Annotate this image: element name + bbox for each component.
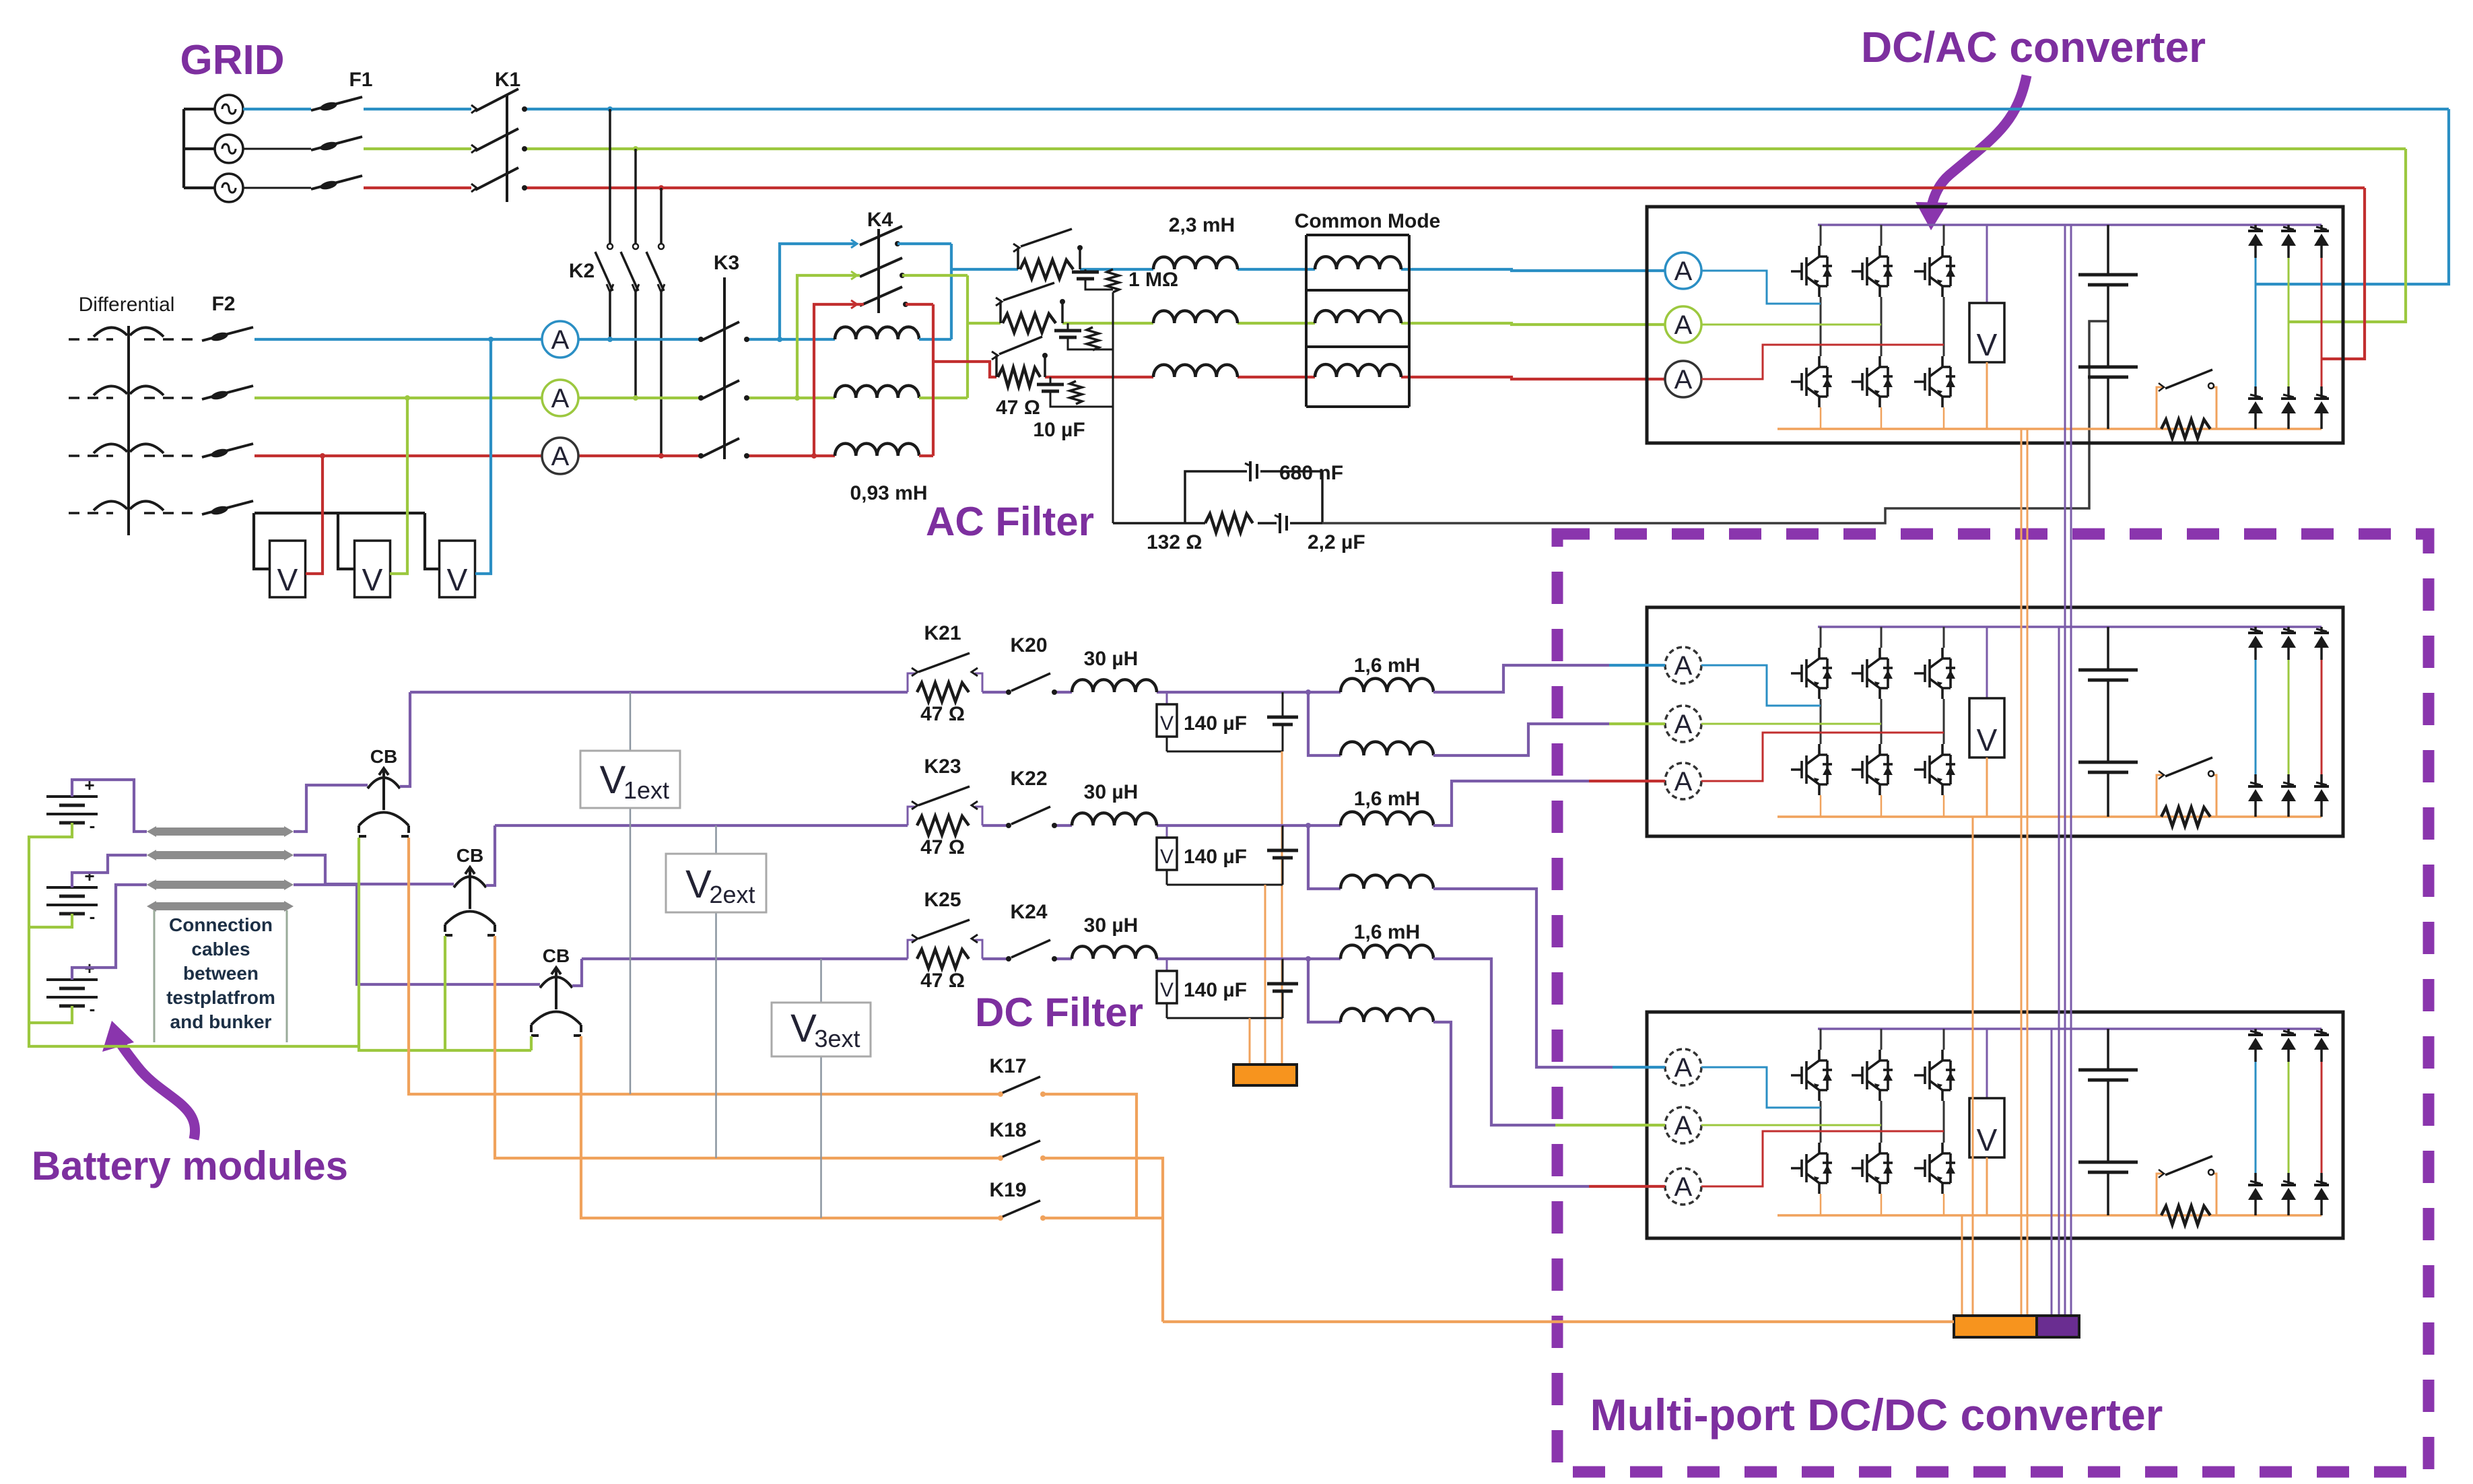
DC/AC converter IGBT leg 1 — [1820, 225, 1822, 246]
svg-text:V: V — [1160, 712, 1174, 735]
svg-text:1ext: 1ext — [623, 776, 669, 804]
inductor 0,93 mH L1 — [835, 327, 919, 339]
DC filter ground bar — [1233, 1065, 1297, 1085]
inductor 1,6 mH row 1 (return) — [1308, 692, 1341, 755]
wire: K18 out — [1043, 1158, 1163, 1322]
svg-text:30 µH: 30 µH — [1084, 781, 1139, 803]
DC/DC unit2 ammeter A2 — [1665, 1107, 1701, 1143]
svg-text:AC Filter: AC Filter — [926, 499, 1094, 544]
wire: phase L3 (red) top bus — [243, 187, 311, 189]
wire: K17 out — [1043, 1094, 1137, 1217]
DC/AC converter enclosure — [1647, 207, 2343, 443]
svg-text:140 µF: 140 µF — [1184, 979, 1247, 1001]
arrow to DC/AC converter — [1931, 75, 2027, 209]
svg-text:1,6 mH: 1,6 mH — [1354, 921, 1420, 943]
inductor 0,93 mH L3 — [835, 444, 919, 456]
DC/DC unit2 precharge switch — [2157, 1174, 2163, 1215]
DC/DC unit1 ammeter A2 — [1665, 706, 1701, 742]
wire: row2 top coil to unit1 A3 (red) — [1433, 781, 1589, 825]
inductor 2,3 mH L3 — [1153, 365, 1238, 377]
svg-text:K25: K25 — [924, 889, 961, 911]
DC/DC unit2 diode leg 1 — [2254, 1029, 2257, 1035]
DC/DC unit1 enclosure — [1647, 607, 2343, 836]
wire: CB2 orange to K18 — [495, 936, 1001, 1158]
svg-text:A: A — [1674, 1111, 1693, 1141]
orange drop row 1 to DC-filter bar — [1281, 751, 1283, 1065]
wire: row3 top coil to unit2 A2 (green) — [1433, 959, 1555, 1125]
DC/DC unit1 IGBT leg 2 — [1881, 627, 1883, 648]
wire: red filter row — [933, 362, 996, 377]
DC/DC unit2 diode leg 2 — [2287, 1029, 2290, 1035]
svg-text:K1: K1 — [495, 69, 520, 91]
svg-text:A: A — [1674, 767, 1693, 797]
wire: CB2 to DC row2 bus — [486, 825, 495, 885]
svg-text:K2: K2 — [569, 260, 595, 282]
svg-text:Common Mode: Common Mode — [1295, 210, 1441, 232]
DC/DC unit1 diode leg 3 — [2320, 627, 2323, 633]
DC/AC converter diode leg 2 — [2287, 225, 2290, 231]
svg-text:K24: K24 — [1010, 901, 1047, 923]
wire: star to DC link midpoint — [1322, 321, 2108, 523]
orange drop row 3 to DC-filter bar — [1249, 1018, 1251, 1065]
inductor 30 uH row 2 — [1072, 813, 1157, 825]
wire: row L3 red after F2 — [255, 454, 542, 457]
svg-text:between: between — [183, 963, 259, 984]
DC/DC unit1 diode leg 2 — [2287, 627, 2290, 633]
svg-text:47 Ω: 47 Ω — [920, 970, 965, 992]
voltmeter V row 1 — [1166, 692, 1168, 704]
svg-text:cables: cables — [191, 939, 250, 959]
wire: star point — [1112, 292, 1114, 523]
DC/DC unit1 phase wire A2 to leg2 — [1701, 723, 1881, 725]
svg-text:2ext: 2ext — [709, 881, 755, 908]
DC/AC converter ammeter A1 — [1665, 252, 1701, 289]
svg-text:A: A — [551, 442, 570, 471]
svg-text:DC Filter: DC Filter — [975, 990, 1143, 1035]
svg-text:2,3 mH: 2,3 mH — [1169, 214, 1235, 236]
svg-text:K23: K23 — [924, 755, 961, 778]
svg-text:A: A — [1674, 710, 1693, 739]
svg-text:A: A — [1674, 310, 1693, 340]
wire: blue filter row — [951, 268, 1018, 271]
svg-text:A: A — [1674, 1172, 1693, 1202]
DC/DC unit2 DC+ bus — [1818, 1027, 2322, 1030]
DC/DC unit2 phase wire A2 to leg2 — [1701, 1124, 1881, 1126]
svg-text:V: V — [1160, 846, 1174, 868]
inductor 2,3 mH L2 — [1153, 311, 1238, 323]
wire: phase L1 (blue) top bus — [243, 108, 311, 110]
wire: phase L2 (green) top bus — [243, 148, 311, 150]
DC/AC converter phase wire A1 to leg1 — [1701, 271, 1821, 304]
capacitor 10 uF L1 — [1085, 269, 1087, 272]
wire: neutral taps into voltmeters — [254, 513, 270, 569]
wire: DC- orange bundle to connector bar — [1961, 1215, 1963, 1316]
voltmeter V3ext — [772, 1003, 871, 1056]
voltmeter V2 (phase L2) — [355, 541, 391, 597]
differential sensor (4 CTs) — [127, 326, 130, 535]
wire: CB3 green return — [530, 1036, 533, 1050]
inductor 1,6 mH row 2 (return) — [1308, 825, 1341, 889]
DC/DC unit1 DC+ bus — [1818, 626, 2322, 628]
DC/DC unit2 DC link voltmeter V — [1986, 1029, 1988, 1098]
svg-text:A: A — [1674, 257, 1693, 286]
svg-text:+: + — [84, 775, 94, 795]
DC/DC unit2 IGBT leg 3 — [1943, 1029, 1945, 1050]
svg-text:V: V — [1160, 979, 1174, 1001]
svg-text:K22: K22 — [1010, 768, 1047, 790]
resistor 1 Mohm L2 — [1087, 327, 1099, 350]
DC/AC converter DC link capacitor C2 — [2107, 285, 2109, 367]
svg-text:10 µF: 10 µF — [1033, 419, 1085, 441]
svg-text:-: - — [90, 999, 96, 1019]
DC/AC converter DC- bus — [1777, 428, 2322, 430]
wire: cable2 to CB2 — [294, 855, 454, 884]
svg-text:A: A — [551, 325, 570, 355]
wire: CB1 orange to K17 — [409, 838, 1001, 1094]
DC row 2 bus (purple) — [495, 824, 908, 827]
svg-text:V: V — [447, 562, 468, 597]
svg-text:V: V — [1977, 722, 1998, 757]
DC/DC unit1 ammeter A1 — [1665, 647, 1701, 683]
svg-text:V: V — [362, 562, 383, 597]
connection cable bars — [156, 828, 284, 836]
svg-text:1,6 mH: 1,6 mH — [1354, 654, 1420, 677]
resistor 1 Mohm L3 — [1070, 381, 1082, 404]
contactor K1 (3 poles) — [506, 94, 508, 202]
svg-text:47 Ω: 47 Ω — [920, 836, 965, 858]
wire: right side drop L2 green — [2289, 149, 2406, 322]
orange drop row 2 to DC-filter bar — [1264, 885, 1266, 1065]
DC/AC converter phase wire A2 to leg2 — [1701, 324, 1881, 326]
DC/AC converter DC+ bus — [1818, 224, 2322, 226]
DC/AC converter precharge switch — [2157, 387, 2163, 429]
damping resistor 47 ohm + switch, L3 — [998, 368, 1040, 386]
inductor 1,6 mH row 2 (top) — [1341, 812, 1433, 825]
wire: merged orange to connector bar — [1163, 1320, 1954, 1323]
wire: red K4 out / coil out — [906, 303, 933, 306]
svg-text:K19: K19 — [989, 1179, 1026, 1201]
wire: cable1 to CB1 — [294, 785, 368, 832]
wire: cable3 to CB3 — [294, 885, 540, 984]
wire: neutral row to voltmeters — [255, 512, 425, 514]
wire: red rise to K4 — [814, 304, 864, 456]
capacitor 10 uF L3 — [1050, 377, 1052, 384]
DC/AC converter phase wire A3 to leg3 — [1701, 345, 1944, 379]
DC/AC converter diode leg 3 — [2320, 225, 2323, 231]
fuse F1 (3 poles) — [311, 97, 362, 110]
dashed boundary: Multi-port DC/DC converter — [1557, 534, 2429, 1472]
wire: row1 return coil to unit1 A2 (green) — [1433, 724, 1609, 755]
DC/AC converter ammeter A3 — [1665, 361, 1701, 397]
svg-text:140 µF: 140 µF — [1184, 846, 1247, 868]
DC row 1 bus (purple) — [410, 691, 908, 694]
voltmeter V1ext — [580, 751, 680, 808]
DC/DC unit1 DC link voltmeter V — [1986, 627, 1988, 698]
svg-text:A: A — [1674, 365, 1693, 395]
ammeter A-L1 — [542, 321, 578, 358]
battery module 3 — [46, 980, 98, 1006]
svg-text:0,93 mH: 0,93 mH — [850, 482, 927, 504]
svg-text:A: A — [1674, 651, 1693, 681]
capacitor 10 uF L2 — [1067, 323, 1069, 331]
svg-text:680 nF: 680 nF — [1279, 462, 1343, 484]
voltmeter V row 3 — [1166, 959, 1168, 971]
wire: V1 tap from red row — [306, 456, 323, 574]
svg-text:V: V — [277, 562, 298, 597]
svg-text:GRID: GRID — [180, 37, 285, 83]
battery module 1 — [46, 797, 98, 823]
wire: row L1 blue after F2 — [255, 338, 542, 341]
svg-text:-: - — [90, 815, 96, 836]
svg-text:30 µH: 30 µH — [1084, 914, 1139, 937]
DC/AC converter IGBT leg 3 — [1943, 225, 1945, 246]
svg-text:-: - — [90, 906, 96, 926]
DC/DC unit1 IGBT leg 1 — [1820, 627, 1822, 648]
DC/DC unit2 DC link capacitor C2 — [2107, 1080, 2109, 1162]
DC/DC unit2 precharge resistor — [2161, 1206, 2210, 1225]
DC/AC converter DC link capacitor C1 — [2107, 225, 2109, 275]
svg-text:K4: K4 — [867, 209, 893, 231]
wire: green K4 out / coil out — [902, 274, 968, 277]
svg-text:47 Ω: 47 Ω — [920, 703, 965, 725]
svg-text:V: V — [1977, 327, 1998, 362]
inductor 1,6 mH row 3 (return) — [1308, 959, 1341, 1022]
wire: CB1 green return — [358, 838, 360, 1046]
wire: V2 tap from green row — [390, 398, 407, 574]
wire: row L2 green after F2 — [255, 397, 542, 399]
DC/AC converter ammeter A2 — [1665, 306, 1701, 343]
svg-text:47 Ω: 47 Ω — [996, 397, 1040, 419]
inductor 2,3 mH L1 — [1153, 257, 1238, 269]
svg-text:K18: K18 — [989, 1119, 1026, 1141]
damping resistor 47 ohm + switch, L1 — [1020, 260, 1073, 279]
wire: battery negatives (green) — [29, 823, 531, 1050]
wire: row2 return coil to unit2 A1 (blue) — [1433, 889, 1613, 1067]
DC/DC unit1 phase wire A3 to leg3 — [1701, 733, 1944, 781]
svg-text:F1: F1 — [349, 69, 372, 91]
svg-text:V: V — [600, 758, 626, 802]
gray sense wire V1ext — [630, 692, 632, 1094]
DC/DC unit1 DC- bus — [1777, 815, 2322, 818]
connector bar (orange/purple) — [1954, 1316, 2037, 1337]
svg-text:30 µH: 30 µH — [1084, 648, 1139, 670]
inductor 30 uH row 3 — [1072, 946, 1157, 959]
DC/DC unit2 enclosure — [1647, 1012, 2343, 1238]
gray sense wire V3ext — [820, 959, 822, 1218]
DC/DC unit2 phase wire A3 to leg3 — [1701, 1131, 1944, 1186]
DC/DC unit1 diode leg 1 — [2254, 627, 2257, 633]
svg-text:Connection: Connection — [169, 914, 273, 935]
ammeter A-L2 — [542, 380, 578, 416]
battery module 2 — [46, 887, 98, 914]
contactor K4 (3 poles with linkage) — [877, 229, 880, 313]
svg-text:V: V — [685, 863, 712, 906]
gray sense wire V2ext — [715, 825, 717, 1158]
DC/DC unit2 IGBT leg 2 — [1881, 1029, 1883, 1050]
svg-text:CB: CB — [456, 845, 483, 866]
wire: V3 tap from blue row — [475, 339, 491, 574]
inductor 30 uH row 1 — [1072, 679, 1157, 692]
DC/DC unit2 ammeter A1 — [1665, 1049, 1701, 1085]
wire: CB2 green return — [444, 936, 446, 1050]
svg-text:testplatfrom: testplatfrom — [166, 987, 275, 1008]
svg-text:140 µF: 140 µF — [1184, 712, 1247, 735]
svg-text:Battery modules: Battery modules — [32, 1143, 348, 1188]
DC/DC unit2 IGBT leg 1 — [1820, 1029, 1822, 1050]
DC/DC unit1 ammeter A3 — [1665, 763, 1701, 799]
DC/AC converter DC link voltmeter V — [1986, 225, 1988, 303]
svg-text:1,6 mH: 1,6 mH — [1354, 788, 1420, 810]
wire: row1 top coil to unit1 A1 (blue) — [1433, 665, 1609, 692]
DC/AC converter IGBT leg 2 — [1881, 225, 1883, 246]
DC/DC unit1 precharge switch — [2157, 775, 2163, 817]
RC damper 680nF / 132ohm / 2,2uF — [1113, 522, 1205, 525]
arrow to Battery modules — [120, 1042, 195, 1139]
wire: battery3 + to cable 3 — [72, 885, 147, 980]
wire: right side drop L3 red — [2322, 188, 2365, 359]
text box sides — [154, 910, 156, 1042]
wire: row3 return coil to unit2 A3 (red) — [1433, 1022, 1589, 1186]
svg-text:Multi-port DC/DC converter: Multi-port DC/DC converter — [1590, 1390, 2163, 1440]
svg-text:CB: CB — [370, 746, 397, 767]
svg-text:V: V — [1977, 1122, 1998, 1157]
DC/AC converter diode leg 1 — [2254, 225, 2257, 231]
wire: battery2 + to cable 2 — [72, 855, 147, 887]
DC/DC unit1 DC link capacitor C2 — [2107, 680, 2109, 762]
DC/AC converter precharge resistor — [2161, 419, 2210, 438]
DC/DC unit2 DC link capacitor C1 — [2107, 1029, 2109, 1070]
svg-text:A: A — [1674, 1053, 1693, 1083]
svg-text:K3: K3 — [714, 252, 739, 274]
voltmeter V3 (phase L1) — [440, 541, 475, 597]
svg-text:2,2 µF: 2,2 µF — [1308, 531, 1365, 553]
wire: blue rise to K4 — [780, 244, 856, 339]
svg-text:K17: K17 — [989, 1055, 1026, 1077]
resistor 1 Mohm L1 — [1107, 269, 1119, 292]
DC/DC unit2 ammeter A3 — [1665, 1168, 1701, 1205]
wire: K19 out — [1043, 1217, 1163, 1219]
fuse F2 (4 poles) — [202, 327, 253, 341]
DC/DC unit2 diode leg 3 — [2320, 1029, 2323, 1035]
DC/DC unit1 precharge resistor — [2161, 807, 2210, 826]
DC/DC unit1 phase wire A1 to leg1 — [1701, 665, 1821, 706]
wire: green filter row — [968, 322, 1001, 325]
DC/DC unit2 phase wire A1 to leg1 — [1701, 1067, 1821, 1108]
svg-text:Differential: Differential — [79, 294, 175, 316]
svg-text:V: V — [790, 1007, 817, 1050]
svg-text:A: A — [551, 384, 570, 413]
svg-text:DC/AC converter: DC/AC converter — [1861, 23, 2206, 71]
svg-text:K21: K21 — [924, 622, 961, 644]
DC row 3 bus (purple) — [582, 957, 908, 960]
DC/DC unit1 DC link capacitor C1 — [2107, 627, 2109, 670]
svg-text:and bunker: and bunker — [170, 1011, 272, 1032]
voltmeter V2ext — [666, 854, 766, 912]
wire: blue K4 out / coil out — [897, 242, 951, 245]
wire: CB3 to DC row3 bus — [572, 959, 582, 986]
svg-text:1 MΩ: 1 MΩ — [1128, 269, 1178, 291]
svg-text:3ext: 3ext — [814, 1025, 860, 1052]
svg-text:F2: F2 — [211, 293, 235, 315]
inductor 1,6 mH row 1 (top) — [1341, 679, 1433, 692]
ammeter A-L3 — [542, 438, 578, 474]
svg-text:132 Ω: 132 Ω — [1147, 531, 1202, 553]
voltmeter V1 (phase L3) — [270, 541, 306, 597]
wire: DC+ purple bundle to connector bar — [2051, 1029, 2053, 1316]
wire: CB3 orange to K19 — [581, 1036, 1001, 1218]
wire: CB1 to DC row1 bus — [400, 692, 410, 786]
svg-text:+: + — [84, 866, 94, 886]
svg-text:CB: CB — [543, 945, 570, 966]
DC/DC unit1 IGBT leg 3 — [1943, 627, 1945, 648]
wire: battery1 + to cable 1 — [72, 780, 147, 832]
svg-text:K20: K20 — [1010, 634, 1047, 656]
wire: green rise to K4 — [797, 275, 860, 398]
DC/DC unit2 DC- bus — [1777, 1214, 2322, 1217]
3-phase AC grid source G1 — [182, 109, 185, 188]
inductor 0,93 mH L2 — [835, 386, 919, 398]
damping resistor 47 ohm + switch, L2 — [1003, 314, 1056, 333]
inductor 1,6 mH row 3 (top) — [1341, 945, 1433, 959]
wire: right side drop L1 blue to DC/AC converter — [2256, 109, 2449, 284]
voltmeter V row 2 — [1166, 825, 1168, 838]
